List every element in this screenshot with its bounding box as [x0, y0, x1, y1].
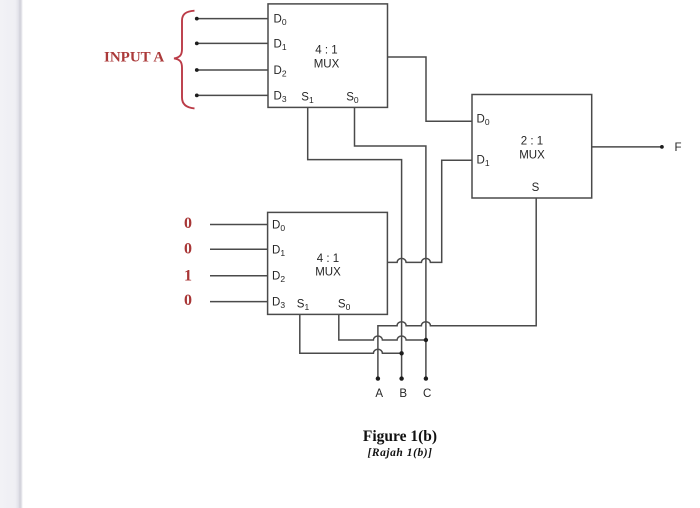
svg-text:Figure 1(b): Figure 1(b) — [363, 428, 437, 445]
svg-text:INPUT A: INPUT A — [104, 50, 164, 66]
svg-text:MUX: MUX — [314, 58, 340, 70]
svg-text:[Rajah 1(b)]: [Rajah 1(b)] — [367, 447, 432, 459]
svg-text:MUX: MUX — [519, 149, 545, 161]
svg-text:0: 0 — [184, 292, 192, 309]
svg-text:0: 0 — [184, 241, 192, 258]
svg-text:2 : 1: 2 : 1 — [521, 136, 543, 148]
svg-text:C: C — [423, 388, 431, 400]
svg-text:MUX: MUX — [315, 267, 341, 279]
svg-text:S: S — [532, 182, 540, 194]
svg-text:0: 0 — [184, 215, 192, 232]
svg-text:A: A — [375, 388, 383, 400]
svg-text:1: 1 — [184, 268, 192, 285]
svg-text:4 : 1: 4 : 1 — [317, 253, 339, 265]
svg-text:F: F — [674, 142, 681, 154]
svg-text:4 : 1: 4 : 1 — [315, 45, 337, 57]
svg-text:B: B — [399, 388, 407, 400]
